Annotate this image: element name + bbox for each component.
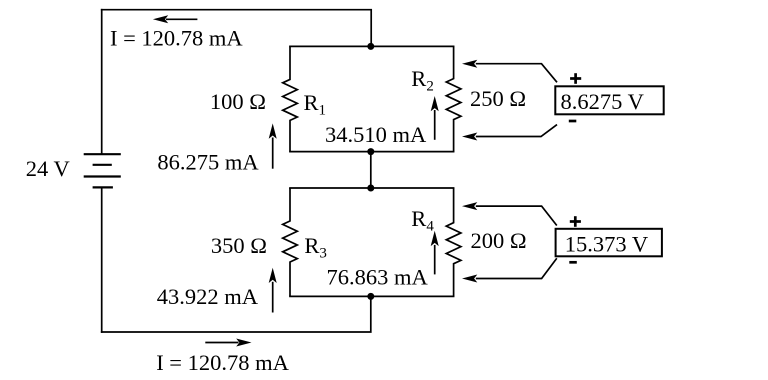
voltmeter box 8.6275 V [555, 86, 663, 114]
svg-text:350 Ω: 350 Ω [211, 233, 267, 258]
wire left vertical battery top [101, 10, 103, 154]
wire top of parallel block 1 [290, 45, 454, 47]
svg-text:R1: R1 [304, 90, 327, 119]
voltmeter lead arrow bottom box upper [462, 202, 557, 225]
wire bottom of parallel block 1 [290, 151, 454, 153]
resistor R2 [446, 46, 461, 151]
svg-text:24 V: 24 V [26, 156, 70, 181]
svg-text:15.373 V: 15.373 V [565, 231, 648, 256]
node A junction dot [367, 43, 374, 50]
wire bottom rail to node D [102, 296, 371, 332]
svg-text:R4: R4 [411, 206, 434, 235]
arrow top current left [153, 15, 198, 23]
node D junction dot [367, 293, 374, 300]
wire middle vertical between blocks [370, 152, 372, 188]
svg-text:43.922 mA: 43.922 mA [157, 284, 259, 309]
svg-text:100 Ω: 100 Ω [210, 89, 266, 114]
svg-text:34.510 mA: 34.510 mA [325, 122, 427, 147]
wire left vertical battery bottom to bottom rail [101, 187, 103, 332]
arrow current R4 up [431, 231, 439, 275]
resistor R4 [446, 188, 461, 296]
svg-text:R3: R3 [304, 233, 327, 262]
battery 24V [84, 154, 121, 187]
svg-text:76.863 mA: 76.863 mA [327, 264, 429, 289]
svg-text:250 Ω: 250 Ω [470, 86, 526, 111]
svg-text:I = 120.78 mA: I = 120.78 mA [156, 350, 289, 375]
svg-text:86.275 mA: 86.275 mA [157, 150, 259, 175]
wire bottom of parallel block 2 [290, 295, 454, 297]
svg-text:I = 120.78 mA: I = 120.78 mA [110, 26, 243, 51]
arrow current R1 up [269, 123, 277, 168]
resistor R1 [283, 46, 298, 151]
svg-text:200 Ω: 200 Ω [471, 228, 527, 253]
minus sign top voltmeter [569, 120, 577, 123]
voltmeter lead arrow bottom box lower [462, 258, 557, 282]
arrow current R2 up [431, 96, 439, 140]
arrow current R3 up [269, 268, 277, 313]
wire top rail from battery to node A [102, 10, 372, 47]
wire top of parallel block 2 [290, 187, 454, 189]
plus sign top voltmeter [570, 73, 581, 84]
node C junction dot [367, 185, 374, 192]
minus sign bottom voltmeter [569, 261, 577, 264]
arrow bottom current right [205, 339, 251, 347]
voltmeter lead arrow top box lower [462, 125, 557, 141]
svg-text:R2: R2 [411, 66, 434, 95]
plus sign bottom voltmeter [570, 216, 581, 227]
voltmeter box 15.373 V [556, 229, 662, 256]
voltmeter lead arrow top box upper [462, 60, 557, 83]
node B junction dot [367, 148, 374, 155]
svg-text:8.6275 V: 8.6275 V [561, 89, 644, 114]
resistor R3 [283, 188, 298, 296]
